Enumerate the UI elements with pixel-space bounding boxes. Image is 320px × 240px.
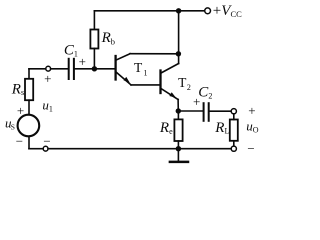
terminal input open circle <box>46 66 51 71</box>
wire input corner segment <box>29 68 46 70</box>
terminal +VCC circle <box>205 8 211 14</box>
node bottom junction <box>176 146 181 151</box>
wire T2 emitter vertical <box>177 100 179 112</box>
svg-text:uO: uO <box>246 118 259 134</box>
svg-text:u1: u1 <box>42 98 53 114</box>
capacitor C1 <box>69 59 74 79</box>
wire Rs to source <box>28 100 30 115</box>
capacitor C2 <box>204 103 209 121</box>
svg-text:RL: RL <box>214 120 229 136</box>
wire bottom rail <box>48 148 231 150</box>
wire Rb bottom lead <box>93 49 95 69</box>
wire Rs top lead <box>28 69 30 79</box>
wire Re bottom lead <box>177 141 179 149</box>
transistor T1 <box>116 54 131 85</box>
svg-text:+VCC: +VCC <box>213 3 242 19</box>
wire circle to C1 <box>51 68 68 70</box>
wire emitter node to C2 <box>178 110 202 112</box>
svg-text:−: − <box>16 134 23 149</box>
wire Rb top lead <box>93 11 95 30</box>
svg-text:T2: T2 <box>178 75 191 92</box>
svg-text:C1: C1 <box>64 42 78 58</box>
node emitter junction <box>176 108 181 113</box>
ground <box>170 149 188 162</box>
svg-text:−: − <box>247 141 254 156</box>
svg-text:Rb: Rb <box>101 30 115 46</box>
svg-text:Rs: Rs <box>11 81 24 97</box>
node base junction <box>92 66 97 71</box>
wire C1 to base node <box>75 68 94 70</box>
wire T1 emitter to T2 base <box>131 84 160 86</box>
svg-text:uS: uS <box>5 116 15 132</box>
node junction top rail <box>176 8 181 13</box>
resistor Re <box>174 119 182 141</box>
node collector junction <box>176 51 181 56</box>
svg-text:Re: Re <box>159 120 173 136</box>
resistor Rb <box>90 30 98 49</box>
svg-text:+: + <box>79 54 86 69</box>
terminal bottom open circle <box>43 146 48 151</box>
wire top rail <box>94 10 204 12</box>
wire bottom rail left <box>29 148 43 150</box>
svg-text:+: + <box>44 71 51 86</box>
transistor T2 <box>161 64 179 100</box>
wire Re top lead <box>177 111 179 119</box>
wire T2 collector vertical <box>178 54 180 64</box>
wire vertical rail to collector node <box>178 11 180 54</box>
source us <box>18 115 40 137</box>
wire T1 collector to node <box>130 53 178 55</box>
resistor Rs <box>25 79 33 100</box>
terminal RL bottom circle <box>231 146 236 151</box>
wire C2 to RL <box>210 110 231 112</box>
svg-text:+: + <box>248 103 255 118</box>
svg-text:C2: C2 <box>198 84 212 100</box>
resistor RL <box>230 120 238 141</box>
svg-text:+: + <box>17 103 24 118</box>
wire source to bottom <box>28 136 30 148</box>
svg-text:T1: T1 <box>134 60 147 78</box>
svg-text:−: − <box>43 134 50 149</box>
wire RL top lead <box>233 114 235 120</box>
wire RL bottom lead <box>233 141 235 146</box>
wire base lead T1 <box>94 68 114 70</box>
terminal RL top circle <box>231 109 236 114</box>
